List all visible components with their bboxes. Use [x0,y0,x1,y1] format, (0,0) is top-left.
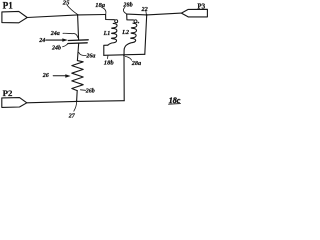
leader 27 [74,102,77,111]
inductor L2 coil [124,23,137,55]
wire coil-bottom horizontal [104,54,145,55]
svg-text:P1: P1 [3,1,14,11]
inductor L2 top elbow [127,14,134,20]
inductor L1 coil [108,23,117,45]
leader 18a [102,7,106,14]
wire drop from common node to bottom rail [123,55,125,100]
junction node 25 [77,14,79,16]
leader 24b [63,44,68,47]
port P2 [2,98,27,108]
leader 26a [79,52,86,55]
svg-text:P2: P2 [3,88,13,98]
svg-text:28b: 28b [122,2,132,9]
svg-text:24b: 24b [51,45,61,51]
svg-text:L2: L2 [121,30,129,36]
wire right vertical from node 22 down [145,15,147,54]
svg-text:22: 22 [141,6,148,13]
svg-text:18a: 18a [95,2,106,9]
inductor L2 terminal circle [134,20,137,23]
leader 28a [125,56,131,60]
leader 26b [80,89,85,92]
wire resistor to node 27 [76,91,79,102]
arrow 24 [46,39,63,41]
wire capacitor to resistor [77,43,78,61]
stray mark near L2 terminal [138,22,140,24]
port P3 [181,9,207,17]
wire P1 to node 25 to corner 18a [27,15,105,18]
leader 25 [67,5,77,14]
svg-text:P3: P3 [197,3,205,11]
svg-text:25: 25 [62,0,70,7]
svg-text:18b: 18b [104,59,115,66]
arrow 26 [53,75,65,77]
port P1 [2,11,27,22]
wire capacitor branch from node 25 [78,15,79,40]
junction node 22 [146,14,148,16]
svg-text:27: 27 [68,113,76,119]
resistor 26 [72,61,83,91]
inductor L1 top elbow [106,15,115,20]
junction node 27 [76,101,78,103]
svg-text:24: 24 [38,38,45,44]
capacitor 24 bottom plate 24b [68,42,87,45]
svg-text:26: 26 [42,73,49,79]
svg-text:28a: 28a [131,60,141,67]
leader 22 [145,11,148,14]
inductor L1 terminal circle [115,20,118,23]
leader 24a [63,33,78,37]
svg-text:26b: 26b [85,88,95,94]
svg-text:L1: L1 [103,31,111,37]
underline 18c [169,103,181,106]
capacitor 24 top plate 24a [68,39,88,42]
wire bottom rail P2 to corner [27,101,124,103]
svg-text:26a: 26a [85,54,95,60]
leader 18b [107,56,109,59]
junction common bottom node 28a [123,54,125,56]
wire top-right from L2 elbow through node 22 to P3 [127,13,182,15]
inductor L1 bottom stub [104,45,108,55]
leader 28b [123,7,126,13]
svg-text:24a: 24a [50,31,60,37]
